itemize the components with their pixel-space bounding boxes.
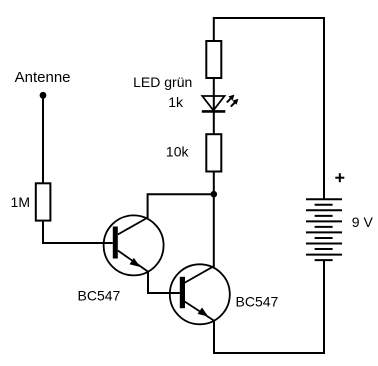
svg-text:9 V: 9 V [352,214,374,230]
transistor Q1 emitter line [118,251,148,272]
battery B1 plates [306,199,342,260]
transistor Q2 emitter arrow [198,308,209,317]
junction node [211,191,218,198]
svg-text:BC547: BC547 [236,293,279,309]
transistor Q1 base bar [113,227,118,259]
svg-text:1k: 1k [168,94,184,110]
wire Q2 emitter to bottom net [213,321,215,354]
LED light arrow 2 [231,99,239,107]
transistor Q2 collector line [184,266,214,283]
wire R 1M to Q1 base [43,222,113,243]
svg-text:1M: 1M [11,194,30,210]
transistor Q1 collector line [118,218,148,235]
wire Q1 emitter to Q2 base [148,272,180,293]
wire battery - to bottom net [323,260,325,354]
transistor Q2 emitter line [184,301,214,320]
wire bottom net [213,352,324,354]
wire antenna to R 1M [42,96,44,184]
transistor Q1 circle [104,215,164,275]
svg-text:Antenne: Antenne [15,69,71,86]
wire top to R 1k [213,17,215,40]
resistor 1M [36,183,51,220]
LED D1 cathode bar [202,110,226,113]
svg-text:LED grün: LED grün [133,74,192,90]
svg-text:10k: 10k [166,144,190,160]
LED D1 triangle [202,96,224,110]
label + battery [335,173,344,182]
svg-text:BC547: BC547 [78,287,121,303]
wire top net [214,17,324,19]
wire top to battery + [323,17,325,199]
antenna terminal dot [40,92,47,99]
resistor 1k [206,41,221,78]
wire R 10k to Q2 collector [213,173,215,268]
wire R 1k to LED and through to R 10k [213,79,215,134]
transistor Q1 emitter arrow [130,258,141,267]
transistor Q2 base bar [180,277,185,308]
wire junction to Q1 collector [148,194,214,218]
LED light arrow 1 [227,95,235,103]
transistor Q2 circle [170,264,230,324]
resistor 10k [206,134,221,171]
